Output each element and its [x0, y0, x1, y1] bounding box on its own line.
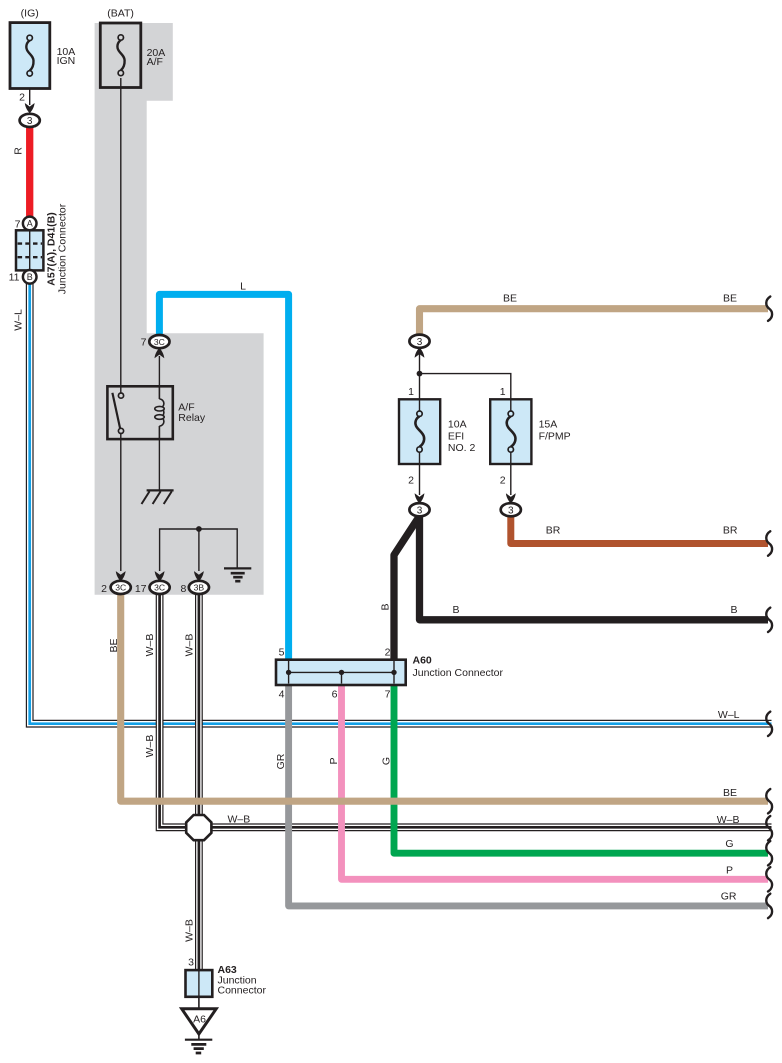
svg-text:A6: A6 — [193, 1014, 206, 1026]
svg-text:W–B: W–B — [183, 919, 195, 942]
break squiggle BE bottom — [766, 789, 772, 813]
svg-text:P: P — [328, 757, 340, 764]
svg-text:BE: BE — [723, 293, 737, 305]
svg-text:W–B: W–B — [717, 814, 740, 826]
octagon junction W-B — [186, 815, 211, 840]
label 10A EFI NO. 2 — [448, 419, 476, 455]
svg-text:F/PMP: F/PMP — [539, 430, 571, 442]
svg-text:B: B — [380, 603, 392, 610]
connector ellipse 3 below EFI — [409, 503, 429, 516]
svg-text:3C: 3C — [115, 583, 126, 593]
chassis ground below relay coil — [142, 490, 174, 504]
svg-text:1: 1 — [500, 386, 506, 398]
fuse 10A EFI NO.2 box — [399, 399, 440, 464]
svg-text:17: 17 — [135, 583, 147, 595]
break squiggle GR — [766, 894, 772, 918]
svg-text:3: 3 — [417, 505, 423, 516]
svg-text:15A: 15A — [539, 419, 558, 431]
wire node to both fuses — [420, 374, 511, 400]
wire R (red) from ellipse 3 to junction connector A — [26, 126, 33, 218]
label 15A F/PMP — [539, 419, 571, 443]
svg-text:7: 7 — [15, 219, 21, 231]
wire relay coil to chassis ground — [158, 439, 160, 490]
wire EFI fuse pin 2 to ellipse — [419, 464, 421, 495]
svg-text:10A: 10A — [448, 419, 467, 431]
svg-text:6: 6 — [332, 688, 338, 700]
connector ellipse 3 below F/PMP — [501, 503, 521, 516]
wire P (pink) from A60 pin 6 down and right to edge — [342, 684, 769, 879]
svg-text:W–B: W–B — [144, 735, 156, 758]
svg-text:(BAT): (BAT) — [107, 8, 134, 20]
svg-text:2: 2 — [385, 647, 391, 659]
svg-text:7: 7 — [141, 337, 147, 349]
ground symbol (earth) in relay box region — [224, 568, 251, 581]
svg-text:Junction Connector: Junction Connector — [413, 667, 504, 679]
svg-text:A60: A60 — [413, 655, 432, 667]
wire L (cyan) from relay pin 7 up, across and down to A60 pin 5 — [159, 294, 288, 659]
svg-text:3: 3 — [508, 505, 514, 516]
wire relay coil to pin 7 3C — [158, 356, 160, 386]
svg-text:Connector: Connector — [218, 985, 267, 997]
svg-text:2: 2 — [500, 474, 506, 486]
wire triangle to earth — [198, 1034, 200, 1040]
fuse 10A IGN box — [10, 23, 50, 89]
connector circle A — [23, 217, 37, 231]
svg-text:EFI: EFI — [448, 430, 464, 442]
arrow into middle 3C — [155, 571, 165, 581]
arrow into 3B — [194, 571, 204, 581]
fuse 15A F/PMP box — [490, 399, 531, 464]
arrow into ellipse 3 — [25, 103, 35, 113]
break squiggle BR — [766, 531, 772, 555]
arrow up into 3C — [155, 348, 165, 358]
wire BR (brown) from F/PMP fuse to right edge — [511, 514, 768, 544]
connector ellipse 3C left — [111, 581, 131, 594]
svg-text:4: 4 — [279, 688, 285, 700]
ground symbol bottom — [185, 1040, 212, 1053]
shaded harness region (gray background) — [95, 23, 264, 595]
svg-text:G: G — [381, 757, 393, 765]
svg-text:3C: 3C — [154, 583, 165, 593]
svg-text:W–L: W–L — [13, 309, 25, 331]
wire A63 to ground triangle — [198, 997, 200, 1010]
svg-text:W–L: W–L — [718, 709, 740, 721]
break squiggle W-B — [766, 816, 772, 840]
svg-text:B: B — [27, 272, 33, 282]
svg-text:3: 3 — [188, 957, 194, 969]
svg-text:GR: GR — [275, 753, 287, 769]
connector ellipse 3C relay top — [149, 335, 169, 348]
svg-text:5: 5 — [279, 647, 285, 659]
svg-text:2: 2 — [19, 92, 25, 104]
connector ellipse 3 BE — [409, 335, 429, 348]
wire GR (gray) from A60 pin 4 down and right to edge — [289, 684, 768, 906]
wire F/PMP fuse pin 2 to ellipse — [510, 464, 512, 495]
junction connector A60 box — [276, 660, 406, 685]
svg-text:A/F: A/F — [147, 56, 163, 68]
connector ellipse 3B — [189, 581, 209, 594]
svg-text:W–B: W–B — [183, 634, 195, 657]
connector circle B — [23, 270, 37, 284]
svg-text:3B: 3B — [194, 583, 205, 593]
svg-text:2: 2 — [408, 474, 414, 486]
svg-text:BE: BE — [108, 638, 120, 652]
wire B (black) diagonal branch down to A60 pin 2 — [394, 516, 420, 659]
svg-text:R: R — [13, 147, 25, 155]
svg-text:3: 3 — [27, 116, 33, 127]
svg-text:G: G — [725, 838, 733, 850]
svg-text:A: A — [27, 219, 33, 229]
svg-text:GR: GR — [721, 890, 737, 902]
arrow down into F/PMP ellipse 3 — [506, 493, 516, 503]
wire G (green) from A60 pin 7 down and right to edge — [394, 684, 768, 853]
wire W-B net: verticals from relay pins, octagon junction, right run and drop to A63 — [160, 593, 772, 971]
break squiggle BE top — [766, 297, 772, 321]
ground net wiring to pins 17 3C and 8 3B — [160, 529, 238, 571]
svg-text:IGN: IGN — [57, 55, 76, 67]
wire from IG fuse pin 2 — [29, 76, 31, 105]
wire B (black) from EFI fuse ellipse: branch to right edge — [420, 514, 769, 620]
svg-text:Junction Connector: Junction Connector — [57, 203, 69, 294]
svg-text:(IG): (IG) — [21, 8, 39, 20]
svg-text:BE: BE — [723, 787, 737, 799]
svg-text:2: 2 — [101, 583, 107, 595]
svg-text:B: B — [452, 604, 459, 616]
svg-text:8: 8 — [181, 583, 187, 595]
junction connector A57 box — [16, 230, 43, 270]
wire W-L (white/blue) from junction connector B down and right to edge — [30, 282, 772, 724]
svg-text:3: 3 — [417, 337, 423, 348]
wire from BE ellipse 3 down to fuse node — [419, 354, 421, 374]
svg-text:B: B — [730, 604, 737, 616]
svg-text:W–B: W–B — [228, 813, 251, 825]
relay A/F box — [107, 386, 172, 439]
svg-text:11: 11 — [9, 272, 20, 284]
wire BE (beige) from relay pin 2 down and right to edge — [121, 594, 768, 802]
svg-text:1: 1 — [408, 386, 414, 398]
ground triangle A6 — [182, 1009, 217, 1034]
junction connector A63 box — [186, 970, 213, 997]
svg-text:BR: BR — [546, 525, 561, 537]
wire BE (beige) top run from EFI node to right edge — [420, 309, 769, 337]
svg-text:Relay: Relay — [178, 412, 206, 424]
svg-text:BR: BR — [723, 525, 738, 537]
arrow down into EFI ellipse 3 — [415, 493, 425, 503]
arrow into left 3C — [116, 571, 126, 581]
break squiggle P — [766, 867, 772, 891]
svg-text:3C: 3C — [154, 337, 165, 347]
svg-text:P: P — [726, 865, 733, 877]
svg-text:NO. 2: NO. 2 — [448, 442, 476, 454]
break squiggle W-L — [766, 712, 772, 736]
node dot above EFI fuse — [417, 371, 423, 377]
wire from BAT fuse through relay switch to pin 2 3C — [120, 78, 122, 571]
connector ellipse 3C middle — [150, 581, 170, 594]
svg-text:BE: BE — [503, 293, 517, 305]
arrow up into BE ellipse — [415, 348, 425, 358]
svg-text:7: 7 — [385, 688, 391, 700]
svg-text:W–B: W–B — [144, 634, 156, 657]
fuse 20A A/F box — [100, 23, 141, 88]
break squiggle G — [766, 841, 772, 865]
break squiggle B — [766, 608, 772, 632]
connector ellipse 3 (IG) — [20, 114, 40, 127]
svg-text:L: L — [240, 281, 246, 293]
junction dot ground net — [196, 526, 202, 532]
